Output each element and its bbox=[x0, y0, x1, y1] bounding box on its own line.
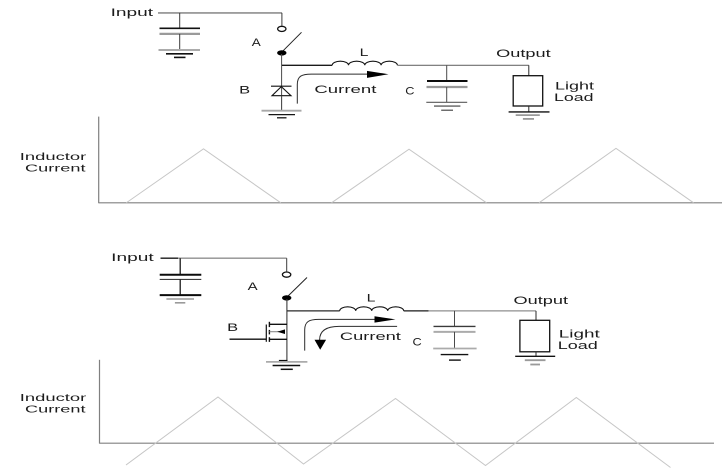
svg-text:Input: Input bbox=[111, 252, 154, 264]
load resistor box (top) bbox=[513, 76, 543, 106]
wire input cap stub (top) bbox=[179, 13, 181, 28]
transistor source bottom stub (bottom) bbox=[279, 360, 288, 362]
capacitor C (bottom) bbox=[434, 325, 476, 327]
ground capacitor C (bottom) bbox=[433, 348, 476, 350]
transistor B MOSFET channel segments (bottom) bbox=[268, 322, 270, 327]
wire to switch A (top) bbox=[281, 13, 283, 26]
axis y (top waveform) bbox=[98, 117, 100, 204]
diode B (top) bbox=[271, 85, 292, 87]
waveform inductor current triangles (bottom) bbox=[126, 397, 671, 468]
axis y (bottom waveform) bbox=[99, 360, 101, 444]
svg-text:A: A bbox=[248, 281, 259, 293]
transistor B MOSFET drain connection (bottom) bbox=[269, 323, 287, 325]
transistor B MOSFET gate bar (bottom) bbox=[265, 325, 267, 342]
svg-text:L: L bbox=[360, 47, 369, 59]
switch A blade (top) bbox=[283, 32, 302, 51]
svg-text:C: C bbox=[413, 337, 422, 349]
wire load to ground (top) bbox=[528, 106, 530, 112]
current arrow down (bottom) bbox=[320, 326, 398, 340]
ground transistor (bottom) bbox=[266, 361, 307, 363]
switch A fixed terminal (top) bbox=[278, 26, 286, 31]
wire inductor to output node (top) bbox=[398, 64, 529, 66]
svg-text:Load: Load bbox=[558, 340, 598, 352]
svg-text:L: L bbox=[367, 293, 376, 305]
wire output drop to load (top) bbox=[528, 65, 530, 75]
load resistor box (bottom) bbox=[520, 320, 550, 352]
transistor B MOSFET gate lead (bottom) bbox=[230, 338, 267, 340]
current arrow right (bottom) bbox=[305, 319, 375, 350]
svg-text:B: B bbox=[239, 84, 250, 96]
capacitor input (bottom) bbox=[160, 274, 202, 276]
transistor B MOSFET source connection (bottom) bbox=[269, 338, 287, 340]
inductor L (bottom) bbox=[340, 307, 404, 311]
ground input capacitor (bottom) bbox=[160, 294, 202, 296]
wire switch node to transistor and ground (bottom) bbox=[286, 299, 288, 361]
ground load (top) bbox=[509, 111, 550, 113]
wire load to ground (bottom) bbox=[535, 352, 537, 356]
svg-text:C: C bbox=[405, 85, 414, 97]
svg-text:Current: Current bbox=[314, 84, 376, 96]
svg-text:Current: Current bbox=[25, 162, 86, 174]
wire cap C stub (bottom) bbox=[454, 311, 456, 326]
axis x (bottom waveform) bbox=[100, 442, 715, 444]
wire to switch A (bottom) bbox=[286, 258, 288, 271]
svg-text:Inductor: Inductor bbox=[20, 151, 87, 163]
ground diode (top) bbox=[262, 110, 302, 112]
inductor L (top) bbox=[332, 61, 397, 65]
svg-text:Current: Current bbox=[340, 331, 401, 343]
capacitor input (top) bbox=[160, 27, 201, 29]
wire switch node to diode (top) bbox=[281, 54, 283, 111]
ground capacitor C (top) bbox=[426, 101, 467, 103]
transistor B MOSFET body arrow (bottom) bbox=[269, 331, 279, 333]
svg-text:Light: Light bbox=[555, 81, 594, 93]
wire switch node to inductor (bottom) bbox=[287, 310, 340, 312]
wire input cap stub (bottom) bbox=[179, 258, 181, 275]
svg-text:Inductor: Inductor bbox=[20, 392, 87, 404]
wire switch node to inductor (top) bbox=[282, 64, 332, 66]
svg-text:Load: Load bbox=[554, 92, 594, 104]
svg-text:B: B bbox=[227, 322, 238, 334]
wire input rail (top) bbox=[158, 12, 282, 14]
svg-text:Input: Input bbox=[111, 7, 154, 19]
wire diode to ground (top) bbox=[281, 96, 283, 111]
svg-text:Current: Current bbox=[25, 403, 86, 415]
svg-text:A: A bbox=[252, 37, 262, 49]
current arrow (top) bbox=[297, 74, 368, 104]
waveform inductor current triangles (top) bbox=[126, 149, 280, 203]
axis x (top waveform) bbox=[99, 202, 722, 204]
wire inductor to output node (bottom) bbox=[404, 310, 429, 312]
node switch A junction dot (bottom) bbox=[282, 295, 291, 300]
svg-text:Output: Output bbox=[514, 295, 569, 307]
wire input rail (bottom) bbox=[161, 257, 179, 259]
svg-text:Light: Light bbox=[559, 328, 600, 340]
wire cap C stub (top) bbox=[446, 65, 448, 81]
node switch A junction dot (top) bbox=[277, 50, 286, 55]
wire output drop to load (bottom) bbox=[535, 311, 537, 320]
switch A blade (bottom) bbox=[288, 278, 307, 297]
svg-text:Output: Output bbox=[496, 48, 551, 60]
switch A fixed terminal (bottom) bbox=[282, 272, 290, 277]
capacitor C (top) bbox=[427, 80, 468, 82]
ground input capacitor (top) bbox=[159, 49, 201, 51]
ground load (bottom) bbox=[515, 355, 555, 357]
